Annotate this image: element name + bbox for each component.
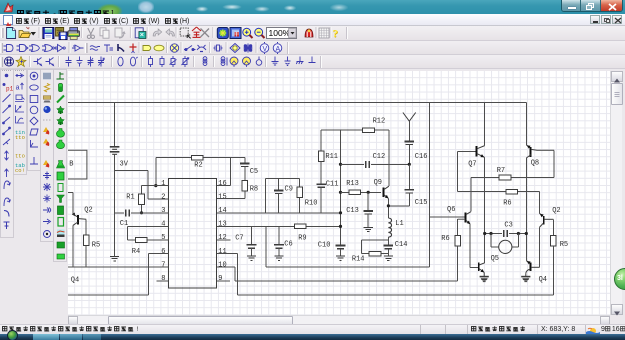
svg-text:L1: L1 <box>395 220 403 228</box>
svg-text:C7: C7 <box>235 234 243 242</box>
svg-text:C14: C14 <box>395 241 408 249</box>
resistor R5 left <box>85 219 87 235</box>
ground (C6) <box>274 255 283 257</box>
svg-text:15: 15 <box>218 193 226 201</box>
capacitor C6 <box>278 226 280 244</box>
status bar <box>0 324 625 334</box>
wire pin1 <box>142 185 169 187</box>
wire pin13 drop to bus <box>265 226 267 267</box>
wire Q6 emitter drop <box>469 224 471 267</box>
svg-text:Q6: Q6 <box>447 206 455 214</box>
node pin1 junction <box>154 184 157 187</box>
toolbar row 1 <box>0 26 625 41</box>
ground (C10) <box>336 255 345 257</box>
wire pin14 <box>217 212 341 214</box>
toolbar row 3 <box>0 55 625 69</box>
wire R6 row <box>457 191 539 193</box>
battery 3V <box>114 103 116 147</box>
svg-text:C16: C16 <box>415 153 428 161</box>
wire R2 rail <box>156 157 245 159</box>
resistor R7 <box>499 175 511 180</box>
ground (Q5 emitter) <box>480 276 489 278</box>
svg-text:4: 4 <box>161 221 165 229</box>
svg-text:C1: C1 <box>120 220 128 228</box>
svg-text:10: 10 <box>218 261 226 269</box>
transistor Q4 right <box>526 261 530 263</box>
ground (C13) <box>364 226 373 228</box>
svg-text:7: 7 <box>161 261 165 269</box>
svg-text:C12: C12 <box>373 153 386 161</box>
svg-text:tto: tto <box>15 134 25 141</box>
svg-text:8: 8 <box>161 275 165 283</box>
wire Q7 emitter drop <box>484 157 486 263</box>
wire pin15 <box>217 198 245 200</box>
node C13 tap <box>367 191 370 194</box>
capacitor C1 <box>125 209 127 216</box>
svg-text:C10: C10 <box>318 241 331 249</box>
wire pin11 + drop <box>217 253 238 255</box>
svg-text:R6: R6 <box>441 235 449 243</box>
svg-text:R5: R5 <box>92 241 100 249</box>
box B <box>68 150 87 179</box>
wire pin6 <box>148 253 168 255</box>
wire pin16 stub <box>217 185 230 187</box>
svg-text:100%: 100% <box>269 28 291 38</box>
ground (C14) <box>384 255 393 257</box>
capacitor C7 <box>251 226 253 244</box>
title bar <box>0 0 625 14</box>
wire Q9 emitter chain <box>387 198 389 218</box>
wire pin10 + drop <box>217 266 235 268</box>
node emitter/C15 <box>387 204 390 207</box>
transistor Q5 <box>478 263 480 271</box>
svg-text:13: 13 <box>218 221 226 229</box>
svg-text:a: a <box>16 85 20 93</box>
resistor R8 <box>242 181 248 192</box>
svg-text:Q2: Q2 <box>552 207 560 215</box>
wire Q6 emitter link <box>458 218 466 220</box>
capacitor C14 <box>384 244 394 246</box>
svg-text:co!: co! <box>15 167 25 174</box>
svg-text:R9: R9 <box>298 234 306 242</box>
node pin13 tap <box>339 225 342 228</box>
transistor Q6 <box>430 216 465 218</box>
svg-text:Q4: Q4 <box>71 277 79 285</box>
svg-text:?: ? <box>333 28 339 40</box>
transistor Q2 left <box>68 191 73 193</box>
capacitor C16 <box>405 140 415 142</box>
inductor L1 <box>388 218 391 237</box>
IC U1 16-pin <box>169 179 217 289</box>
svg-text:C15: C15 <box>415 199 428 207</box>
svg-text:C11: C11 <box>326 181 339 189</box>
wire pin13 <box>217 225 341 227</box>
svg-text:R6: R6 <box>503 199 511 207</box>
transistor Q9 <box>382 187 384 197</box>
transistor Q8 <box>525 103 527 146</box>
svg-text:12: 12 <box>218 234 226 242</box>
wire Q5 base <box>470 266 478 268</box>
svg-text:R1: R1 <box>126 193 134 201</box>
left palette group A <box>0 69 27 239</box>
resistor R4 <box>135 238 147 243</box>
wire pin12 stub <box>217 239 231 241</box>
svg-text:2: 2 <box>161 193 165 201</box>
wire top supply rail <box>68 102 526 104</box>
svg-text:R10: R10 <box>305 200 318 208</box>
svg-text:Q8: Q8 <box>531 160 539 168</box>
svg-text:A: A <box>276 46 281 53</box>
motor <box>490 234 492 247</box>
wire bottom rail <box>238 294 554 296</box>
svg-text:p1: p1 <box>6 86 14 93</box>
svg-text:1: 1 <box>161 180 165 188</box>
svg-text:R11: R11 <box>325 153 338 161</box>
svg-text:Q2: Q2 <box>84 206 92 214</box>
mdi child buttons <box>590 15 622 24</box>
node C3 right <box>525 232 528 235</box>
vertical scrollbar <box>610 71 622 315</box>
ground (Q4 emitter) <box>521 276 530 278</box>
ground (battery) <box>110 256 119 258</box>
transistor Q7 <box>457 151 476 153</box>
toolbar row 2 <box>0 41 625 55</box>
wire Q2r emitter drop <box>538 227 540 267</box>
node R1 bottom <box>140 211 143 214</box>
wire C15 to Q9 emitter <box>388 205 409 207</box>
capacitor C5 <box>244 158 246 163</box>
wire pin2 supply feed <box>115 170 148 172</box>
svg-text:11: 11 <box>218 248 226 256</box>
capacitor C12 <box>365 161 367 168</box>
wire L1 to C14 <box>387 237 389 245</box>
wire pin3 <box>115 212 125 214</box>
wire Q8 lower drop <box>525 158 527 261</box>
node C12 tap <box>339 163 342 166</box>
svg-text:Q5: Q5 <box>491 255 499 263</box>
capacitor C13 <box>367 192 369 210</box>
antenna <box>403 113 416 122</box>
wire pin6 drop <box>147 254 149 295</box>
wire pin7 <box>68 266 169 268</box>
green floating ball (desktop gadget) <box>614 268 625 290</box>
capacitor C11 <box>316 183 326 185</box>
wire main riser <box>429 103 431 268</box>
windows taskbar <box>0 334 625 340</box>
svg-text:C3: C3 <box>504 221 512 229</box>
svg-text:5: 5 <box>161 234 165 242</box>
resistor R6 vertical <box>457 219 459 235</box>
node antenna/C12 <box>408 163 411 166</box>
wire pin1 riser <box>155 158 157 186</box>
drawing canvas <box>68 71 610 315</box>
svg-text:R13: R13 <box>346 180 359 188</box>
svg-text:R2: R2 <box>194 161 202 169</box>
wire pin5 <box>128 239 169 241</box>
menu bar <box>0 14 625 26</box>
svg-text:3: 3 <box>161 207 165 215</box>
node C3 left <box>483 232 486 235</box>
wire bottom-left rail <box>68 294 148 296</box>
wire C3 row <box>485 233 502 235</box>
wire mid vertical bus <box>340 130 342 245</box>
svg-text:B: B <box>69 161 73 169</box>
ground (C7) <box>247 255 256 257</box>
svg-text:R4: R4 <box>132 248 140 256</box>
resistor R2 <box>192 155 204 160</box>
svg-text:R8: R8 <box>250 186 258 194</box>
svg-text:V: V <box>263 46 268 53</box>
capacitor C15 <box>408 164 410 189</box>
resistor R1 <box>141 186 143 194</box>
resistor R11 <box>320 130 322 151</box>
wire C12 row <box>341 163 365 165</box>
svg-text:14: 14 <box>218 207 226 215</box>
svg-text:6: 6 <box>161 248 165 256</box>
left palette group B <box>27 69 67 263</box>
resistor R14 loop <box>361 239 388 241</box>
svg-text:Q4: Q4 <box>539 276 547 284</box>
svg-text:C13: C13 <box>346 207 359 215</box>
svg-text:C6: C6 <box>284 241 292 249</box>
wire R7 row <box>471 177 554 179</box>
svg-text:R5: R5 <box>560 241 568 249</box>
svg-text:tto: tto <box>15 153 25 160</box>
capacitor C10 <box>336 244 346 246</box>
svg-text:R7: R7 <box>497 167 505 175</box>
node motor left <box>489 232 492 235</box>
svg-text:R12: R12 <box>373 118 386 126</box>
svg-text:9: 9 <box>218 275 222 283</box>
wire R13 row <box>341 191 381 193</box>
resistor R13 <box>349 190 361 195</box>
node motor right <box>517 232 520 235</box>
resistor R5 right <box>552 219 554 235</box>
node pin14 tap <box>339 211 342 214</box>
wire pin8 stub <box>157 280 169 282</box>
wire pin4 <box>128 225 169 227</box>
resistor R9 <box>294 224 306 229</box>
svg-text:3V: 3V <box>120 161 129 169</box>
capacitor C3 <box>503 230 505 237</box>
wire R12 row <box>321 129 389 131</box>
svg-text:C5: C5 <box>250 168 258 176</box>
resistor R6 <box>506 189 518 194</box>
node R13 tap <box>339 191 342 194</box>
wire bus to riser <box>266 266 430 268</box>
resistor R12 <box>363 128 375 133</box>
horizontal scrollbar <box>68 315 610 324</box>
svg-text:16: 16 <box>218 180 226 188</box>
svg-text:R14: R14 <box>352 255 365 263</box>
wire pin9 stub <box>217 280 230 282</box>
svg-text:Q9: Q9 <box>374 179 382 187</box>
wire pin10 long run <box>235 280 458 282</box>
svg-text:Q7: Q7 <box>468 160 476 168</box>
window buttons <box>561 0 623 12</box>
transistor Q2 right <box>539 192 541 214</box>
parallel group C9 / R10 <box>265 178 299 180</box>
svg-text:C9: C9 <box>285 186 293 194</box>
